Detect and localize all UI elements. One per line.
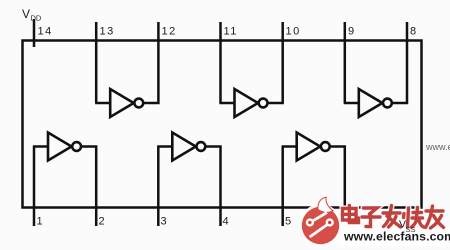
inverter U1A triangle (pins 1-2) xyxy=(48,133,72,161)
inverter U1F bubble xyxy=(134,99,143,108)
svg-text:www.elecfans.com: www.elecfans.com xyxy=(343,230,450,244)
wire U1E input elbow xyxy=(219,102,235,105)
watermark logo red disc xyxy=(302,207,339,244)
watermark logo stroke B (ring 2 to rim) xyxy=(310,223,330,237)
svg-text:4: 4 xyxy=(223,216,231,228)
wire U1C output to pin 6 xyxy=(330,147,345,207)
svg-text:V: V xyxy=(22,7,30,21)
svg-text:9: 9 xyxy=(348,26,356,38)
wire pin 3 to U1B input xyxy=(157,147,160,227)
wire U1A input elbow xyxy=(33,145,49,148)
inverter U1C triangle (pins 5-6) xyxy=(297,133,321,161)
inverter U1D triangle (pins 9-8) xyxy=(359,89,383,117)
watermark char 友 xyxy=(426,206,444,228)
pin 14 stub (VDD) xyxy=(33,19,36,47)
svg-text:www.elec: www.elec xyxy=(425,142,450,152)
svg-text:1: 1 xyxy=(37,216,45,228)
wire U1F input elbow xyxy=(95,102,111,105)
IC outline U1 xyxy=(23,41,422,208)
watermark logo ring 2 xyxy=(327,220,333,226)
svg-text:12: 12 xyxy=(162,26,177,38)
inverter U1E triangle (pins 11-10) xyxy=(235,89,259,117)
watermark text white halo xyxy=(343,206,444,229)
inverter U1F triangle (pins 13-12) xyxy=(110,89,134,117)
wire pin 9 to U1D input xyxy=(344,22,347,103)
wire U1F output to pin 12 xyxy=(143,22,158,103)
watermark logo tail xyxy=(318,197,333,212)
wire pin 5 to U1C input xyxy=(281,147,284,227)
watermark char 电 xyxy=(343,206,359,223)
inverter U1B triangle (pins 3-4) xyxy=(172,133,196,161)
wire pin 13 to U1F input xyxy=(95,22,98,103)
inverter U1A bubble xyxy=(72,142,81,151)
wire U1A output to pin 2 xyxy=(81,147,96,227)
svg-text:2: 2 xyxy=(99,216,107,228)
wire U1B output to pin 4 xyxy=(205,147,220,227)
inverter U1C bubble xyxy=(321,142,330,151)
wire U1C input elbow xyxy=(282,145,298,148)
inverter U1E bubble xyxy=(259,99,268,108)
svg-text:14: 14 xyxy=(38,26,53,38)
svg-text:DD: DD xyxy=(31,14,42,23)
inverter U1D bubble xyxy=(383,99,392,108)
svg-text:10: 10 xyxy=(286,26,301,38)
watermark logo ring 1 xyxy=(307,220,313,226)
svg-text:11: 11 xyxy=(224,26,238,38)
svg-text:SS: SS xyxy=(406,225,416,234)
watermark char 烧 xyxy=(404,208,424,228)
svg-text:13: 13 xyxy=(100,26,115,38)
svg-text:5: 5 xyxy=(285,216,293,228)
wire U1D input elbow xyxy=(344,102,360,105)
watermark char 子 xyxy=(362,208,380,227)
watermark logo white halo ring xyxy=(299,204,342,247)
watermark char 发 xyxy=(383,206,401,228)
wire pin 1 to U1A input xyxy=(33,147,36,227)
wire pin 11 to U1E input xyxy=(219,22,222,103)
svg-text:3: 3 xyxy=(161,216,169,228)
watermark url strip xyxy=(337,227,450,247)
wire U1E output to pin 10 xyxy=(268,22,283,103)
wire U1B input elbow xyxy=(157,145,173,148)
wire U1D output to pin 8 xyxy=(392,22,407,103)
watermark logo stroke A (tail to ring 1) xyxy=(310,212,327,222)
inverter U1B bubble xyxy=(197,142,206,151)
svg-text:8: 8 xyxy=(410,26,418,38)
